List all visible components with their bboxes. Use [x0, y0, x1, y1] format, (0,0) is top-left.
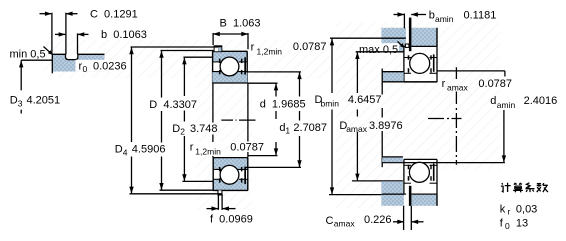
svg-text:3.748: 3.748	[190, 123, 218, 135]
svg-text:4.6457: 4.6457	[348, 94, 382, 106]
bore silhouette lines	[213, 83, 248, 158]
svg-text:amax: amax	[346, 124, 368, 134]
svg-text:0.1181: 0.1181	[464, 10, 497, 22]
svg-text:r: r	[251, 42, 255, 54]
svg-text:d: d	[490, 95, 496, 107]
svg-text:d 1.9685: d 1.9685	[260, 99, 306, 111]
svg-text:0.0787: 0.0787	[293, 41, 327, 53]
dimension da min	[490, 95, 557, 163]
shaft shoulder lower	[382, 157, 403, 162]
svg-text:4: 4	[123, 147, 128, 157]
svg-text:b 0.1063: b 0.1063	[101, 29, 147, 41]
ball upper (right view)	[410, 53, 430, 73]
dimension d (bore)	[248, 83, 306, 155]
dimension Ca max	[326, 206, 424, 230]
svg-text:1,2min: 1,2min	[195, 146, 221, 156]
cage and shield lower (right view)	[408, 164, 435, 181]
upper snap ring in groove	[214, 45, 223, 52]
svg-text:r: r	[442, 78, 446, 90]
upper ball	[220, 57, 239, 76]
dimension Db min	[315, 38, 407, 194]
lower shield	[244, 167, 246, 184]
factor kr	[500, 204, 538, 217]
bearing outline lower (right view)	[404, 159, 437, 194]
svg-text:3.8976: 3.8976	[369, 120, 403, 132]
svg-text:2.7087: 2.7087	[293, 122, 327, 134]
svg-text:0,03: 0,03	[516, 204, 537, 216]
svg-text:min 0,5: min 0,5	[10, 48, 46, 60]
dimension D3 (groove diameter)	[10, 60, 60, 113]
lower snap ring tab	[217, 190, 222, 195]
upper cage marks	[219, 59, 243, 75]
axis centerline right view	[428, 118, 462, 120]
svg-text:0: 0	[83, 64, 88, 74]
svg-text:B 1.063: B 1.063	[220, 18, 261, 30]
axis cross dash-dot vertical	[455, 67, 457, 164]
housing upper block	[381, 28, 437, 52]
cage and shield upper (right view)	[408, 54, 435, 72]
dimension D (outside diameter)	[149, 51, 213, 191]
da/ra reference line	[437, 71, 505, 77]
svg-text:2: 2	[180, 127, 185, 137]
dimension C (groove position)	[40, 9, 138, 55]
svg-text:0: 0	[505, 221, 510, 231]
snap ring bar lower (right view)	[409, 186, 412, 206]
bearing axis centerline	[221, 119, 255, 121]
svg-text:13: 13	[516, 218, 528, 230]
dimension D4 (snap ring OD)	[115, 47, 223, 194]
lower cage marks	[219, 167, 243, 183]
svg-text:0.0787: 0.0787	[230, 142, 264, 154]
svg-text:1: 1	[285, 126, 290, 136]
lower inner ring	[213, 158, 248, 170]
svg-text:max 0,5: max 0,5	[359, 44, 398, 56]
svg-text:C 0.1291: C 0.1291	[90, 9, 138, 21]
min 0,5 chamfer label	[10, 47, 53, 61]
watermark hatch main view column	[196, 78, 252, 210]
groove detail block	[52, 54, 104, 73]
r0 fillet label	[76, 60, 140, 74]
svg-text:f 0.0969: f 0.0969	[210, 213, 253, 225]
svg-text:amax: amax	[447, 83, 469, 93]
dimension ba min	[394, 10, 497, 29]
watermark hatch right view column	[336, 22, 500, 170]
r1,2min label lower left	[188, 142, 264, 157]
housing bore line upper	[404, 45, 438, 47]
svg-text:D: D	[172, 123, 180, 135]
upper shield	[244, 57, 246, 74]
lower outer ring	[213, 158, 248, 190]
max 0,5 chamfer label	[358, 42, 405, 57]
dimension f (snap ring tab width)	[207, 194, 253, 225]
svg-text:amax: amax	[334, 218, 356, 228]
upper outer ring	[212, 51, 247, 83]
ball lower (right view)	[409, 162, 429, 182]
snap ring bar upper (right view)	[405, 18, 411, 52]
watermark hatch band top	[44, 40, 330, 78]
svg-text:3: 3	[18, 99, 23, 109]
shaft shoulder face line	[381, 69, 383, 168]
shaft shoulder upper	[382, 72, 437, 82]
dimension d1 (inner shoulder diameter)	[246, 72, 327, 167]
factor f0	[500, 218, 528, 232]
svg-text:2.4016: 2.4016	[524, 95, 558, 107]
bearing outline upper (right view)	[404, 46, 437, 82]
dimension Da max	[339, 52, 403, 181]
dimension b (groove width)	[55, 29, 147, 54]
svg-text:4.2051: 4.2051	[27, 95, 61, 107]
svg-text:b: b	[429, 10, 435, 22]
dimension B (width)	[213, 18, 261, 50]
calculation factors heading	[501, 183, 548, 193]
svg-text:amin: amin	[497, 100, 516, 110]
housing shoulder lower	[381, 181, 403, 194]
svg-text:0.0236: 0.0236	[93, 60, 127, 72]
upper inner ring	[212, 72, 247, 83]
svg-text:D 4.3307: D 4.3307	[149, 99, 197, 111]
dimension D2 (shoulder diameter)	[172, 57, 217, 181]
svg-text:r: r	[508, 207, 511, 217]
svg-text:amin: amin	[435, 14, 454, 24]
svg-text:4.5906: 4.5906	[132, 144, 166, 156]
svg-text:r: r	[190, 142, 194, 154]
svg-text:k: k	[500, 204, 506, 216]
r1,2min label top right	[251, 41, 327, 56]
svg-text:0.0787: 0.0787	[478, 78, 512, 90]
svg-text:0.226: 0.226	[364, 214, 392, 226]
housing lower block	[381, 194, 437, 206]
svg-text:D: D	[10, 95, 18, 107]
housing OD line lower	[382, 193, 437, 195]
svg-text:1,2min: 1,2min	[257, 46, 283, 56]
svg-text:bmin: bmin	[321, 98, 340, 108]
r amax label	[442, 78, 512, 93]
svg-text:C: C	[326, 215, 334, 227]
shaft surface lower / da ext line	[382, 162, 505, 164]
lower ball	[220, 165, 239, 184]
watermark hatch right view lower	[336, 170, 422, 208]
svg-text:D: D	[115, 144, 123, 156]
